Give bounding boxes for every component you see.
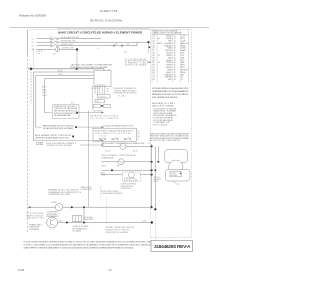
broil junction square [72,136,74,138]
svg-text:CONTACTOS DEL SEGURO: CONTACTOS DEL SEGURO [46,144,73,147]
blower housing top [165,150,188,163]
neutral arrow [28,206,31,208]
blower terminal dot [180,173,181,174]
row4 receptacle tick [56,48,58,51]
svg-text:BK-15: BK-15 [102,165,107,167]
blower leader line [173,181,176,183]
conv motor wire right [140,174,151,176]
rail end dot [154,208,156,210]
svg-text:P5: P5 [108,70,110,72]
svg-text:REFERENCE // NOTA: TODOS LOS C: REFERENCE // NOTA: TODOS LOS CABLES [152,93,189,96]
svg-text:CABLE DE 105 C MINIMO: CABLE DE 105 C MINIMO [152,104,175,107]
TOD box [73,216,82,222]
row2 drop stub [148,42,150,53]
door wire arrow2 [36,126,42,128]
blower wheel [169,160,183,174]
wire table columns [152,30,188,83]
svg-text:WIRING DIAGRAM: WIRING DIAGRAM [90,18,122,22]
bus line 3 [36,75,94,77]
svg-text:10: 10 [108,268,112,272]
part number box [151,240,193,251]
blower terminal box [170,172,182,177]
schematic left border [27,30,29,55]
blower housing bottom [166,169,190,181]
bake wire dot [150,145,152,147]
svg-text:P4-1 TO P4-6 // CONECTOR: P4-1 TO P4-6 // CONECTOR [91,118,119,120]
svg-text:7 8 9: 7 8 9 [96,101,100,103]
neutral wire left [30,206,55,208]
svg-text:CIRCUITO 120V: CIRCUITO 120V [27,218,45,220]
right rail N [151,144,153,207]
bake junction square [75,126,77,128]
svg-text:RD-12: RD-12 [42,92,47,94]
svg-text:P1-5: P1-5 [124,52,127,54]
mid dashed divider [106,199,108,224]
svg-text:L1: L1 [32,39,34,41]
rail junction dot [150,206,152,208]
row4 junction dot [76,48,78,50]
dashed drop wire [33,50,35,69]
right rail L1 [157,146,159,162]
svg-text:OR-15: OR-15 [42,95,47,97]
connector box P12 [95,99,105,102]
svg-text:GY-22: GY-22 [101,175,106,177]
svg-text:DOUBLE LINE BREAK RELAY // REL: DOUBLE LINE BREAK RELAY // RELE [103,125,134,128]
connector box P14 [104,104,111,107]
svg-text:CONVECCION: CONVECCION [121,188,133,190]
fan wire dots [111,169,113,171]
motor wire right [58,222,152,224]
svg-text:L2: L2 [181,79,183,81]
broil wire dots [150,161,152,163]
wire table rows [153,35,190,82]
svg-text:SERVICING // DESCONECTE LA LIN: SERVICING // DESCONECTE LA LINEA [70,66,108,69]
row2 junction dot [147,41,149,43]
svg-text:CORRIENTE 240V 60HZ: CORRIENTE 240V 60HZ [48,194,70,196]
svg-text:1 3: 1 3 [50,36,52,38]
svg-text:NOTE: ALL WIRES 18 GA UNLESS N: NOTE: ALL WIRES 18 GA UNLESS NOTED [152,87,189,90]
cooling fan motor [47,217,58,228]
motor wire dots [66,222,68,224]
wire row4 [37,47,78,51]
DLB contact 3 [124,138,131,140]
title overline [57,28,150,30]
svg-text:P1 - A B C: P1 - A B C [118,94,127,97]
neutral wire right [63,206,152,208]
svg-text:MOTOR VENT: MOTOR VENT [47,214,58,216]
broil element wire [102,161,152,163]
broil element [118,159,124,165]
svg-text:LA RESISTENCIA DE ASAR 3400W 2: LA RESISTENCIA DE ASAR 3400W 240V [35,136,70,139]
svg-text:MOTOR: MOTOR [154,177,161,179]
svg-text:K2 K3 CONTACTS P2-1 P2-2 P2-3: K2 K3 CONTACTS P2-1 P2-2 P2-3 BK [95,132,132,135]
drop wire [83,207,85,222]
probe receptacle [55,204,62,211]
right note block A [152,87,189,99]
svg-text:MOTOR DE CONV: MOTOR DE CONV [124,180,139,182]
bake element [120,143,126,149]
DLB contact 1 [99,138,106,140]
right numbered list [153,107,177,126]
svg-text:OTHERWISE. WIRE COLORS SHOWN A: OTHERWISE. WIRE COLORS SHOWN ARE FOR [152,90,189,93]
svg-text:1 3 1 3 1 3: 1 3 1 3 1 3 [99,136,106,138]
svg-text:BK-22: BK-22 [101,172,106,174]
svg-text:L1: L1 [98,48,100,50]
svg-text:WIRING TO BE: WIRING TO BE [81,187,92,189]
svg-text:Publication No: 00063069: Publication No: 00063069 [19,14,47,18]
svg-text:TERMOSTATO DE LA PARED: TERMOSTATO DE LA PARED [105,231,129,234]
svg-text:BLK/RED LINE 2: BLK/RED LINE 2 [61,44,73,46]
conv motor [128,172,134,178]
door wire arrow3 [34,140,102,142]
vertical bus wires [30,69,32,103]
svg-text:8 EOC CONTROL: 8 EOC CONTROL [153,124,168,126]
svg-text:1208: 1208 [18,268,25,272]
svg-text:L2 RED: L2 RED [51,202,57,204]
wire row3 [37,42,138,46]
svg-text:DE MOTOR DEL VENTILADOR: DE MOTOR DEL VENTILADOR [150,139,181,142]
svg-text:1 2 3 4 5 6: 1 2 3 4 5 6 [98,96,106,98]
schematic top border [28,28,192,30]
table arrow [148,61,151,63]
svg-text:CAUTION: DISCONNECT POWER BEFO: CAUTION: DISCONNECT POWER BEFORE [70,63,112,66]
svg-text:BLOWER: BLOWER [154,179,162,181]
main bus L1 [28,68,104,70]
svg-text:31844625S REV-A: 31844625S REV-A [154,244,191,250]
svg-text:WH-11: WH-11 [42,89,47,91]
svg-text:COPPER ONLY: COPPER ONLY [81,189,93,191]
svg-text:BK-10: BK-10 [42,87,47,89]
right column divider [150,30,152,238]
svg-text:BK-44: BK-44 [58,70,63,72]
fan element wire [102,169,152,171]
oven door note box [53,105,80,119]
svg-text:80: 80 [153,79,155,81]
right note block C [150,132,190,142]
svg-text:USAR: REFER TO SERVICE DATA SH: USAR: REFER TO SERVICE DATA SHEET // CON… [23,246,134,249]
svg-text:L2: L2 [138,138,140,140]
bake element wire [102,145,152,147]
door wire arrow1 [45,112,53,114]
connector box P11 [98,95,111,98]
panel bottom dashed [151,236,192,238]
svg-text:BK-14: BK-14 [105,150,110,152]
DLB contact 2 [112,138,119,140]
svg-text:TERMINALES AISLADAS: TERMINALES AISLADAS [114,92,138,95]
svg-text:BK: BK [107,91,109,93]
bus line 2 [34,71,95,73]
svg-text:DE LA PUERTA 16A: DE LA PUERTA 16A [54,114,71,117]
wire row1 [37,37,102,39]
right note block B [152,102,176,107]
pin drop dashed [100,186,102,200]
svg-text:RD-41: RD-41 [133,150,138,152]
svg-text:L1: L1 [138,131,140,133]
door junction square [76,112,78,114]
right column right border [190,30,192,238]
neutral junction dots [71,206,73,208]
svg-text:18: 18 [174,79,176,81]
main bus junction dot [30,68,33,71]
conv motor box [122,172,140,181]
svg-text:COLOR CODING: BK-BLACK W-WHITE: COLOR CODING: BK-BLACK W-WHITE R-RED GY-… [23,241,152,244]
svg-text:DE LA RESISTENCIA DE HORNEAR: DE LA RESISTENCIA DE HORNEAR [43,127,74,130]
svg-text:5-8: 5-8 [127,44,129,46]
wire row2 [37,41,149,43]
svg-text:P27: P27 [53,53,56,55]
conv motor wire left [102,174,123,176]
svg-text:WH GND: WH GND [171,175,178,177]
svg-text:TOD HI-LIMIT: TOD HI-LIMIT [83,217,92,219]
svg-text:CORRIENTE: CORRIENTE [29,229,40,231]
header rule [10,26,209,28]
connector link dots [101,105,103,107]
EOC control box [94,71,111,87]
svg-text:P11: P11 [177,184,180,186]
svg-text:DORAR 3400W: DORAR 3400W [102,156,114,159]
svg-text:CONV MOTOR //: CONV MOTOR // [124,178,137,180]
svg-text:BAKE CIRCUIT // CIRCUITO DE HO: BAKE CIRCUIT // CIRCUITO DE HORNO // ELE… [58,30,143,34]
svg-text:CONTROL: DISCONNECT LA CORRIEN: CONTROL: DISCONNECT LA CORRIENTE ANTES D… [23,244,152,247]
svg-text:BK: BK [138,133,140,135]
svg-text:L-1: L-1 [148,143,150,145]
DLB relay box [93,128,137,141]
svg-text:L2: L2 [32,46,34,48]
table side dot [148,46,150,48]
bus line 4 [45,78,95,80]
svg-text:SLEB27T8F: SLEB27T8F [100,9,118,13]
EOC pin wires [93,86,105,110]
svg-text:P5 P8 P9 P7 P3: P5 P8 P9 P7 P3 [96,85,107,87]
svg-text:1 2 3 4 5 6 7: 1 2 3 4 5 6 7 [92,88,101,90]
svg-text:SON CALIBRE 18 AL MENOS . . .: SON CALIBRE 18 AL MENOS . . . [152,96,180,99]
svg-text:P11 BK: P11 BK [171,173,176,175]
EOC long pin wire [88,110,90,207]
svg-text:BLK/RED OVEN: BLK/RED OVEN [62,47,75,49]
svg-text:WH-36: WH-36 [58,74,63,76]
lock wire arrow4 [80,144,102,146]
switch boxes [37,142,39,144]
svg-text:TDP: TDP [115,44,118,46]
connector box P13 [94,104,101,107]
svg-text:NEUTRO DEL ARNES: NEUTRO DEL ARNES [125,64,147,67]
svg-text:MOTOR // BK-57 WH-55: MOTOR // BK-57 WH-55 [101,191,119,193]
svg-text:BK-57: BK-57 [59,220,63,222]
rail dashed continuation [154,212,156,240]
svg-text:1 2 3: 1 2 3 [37,53,41,55]
right rail mid [154,146,156,209]
